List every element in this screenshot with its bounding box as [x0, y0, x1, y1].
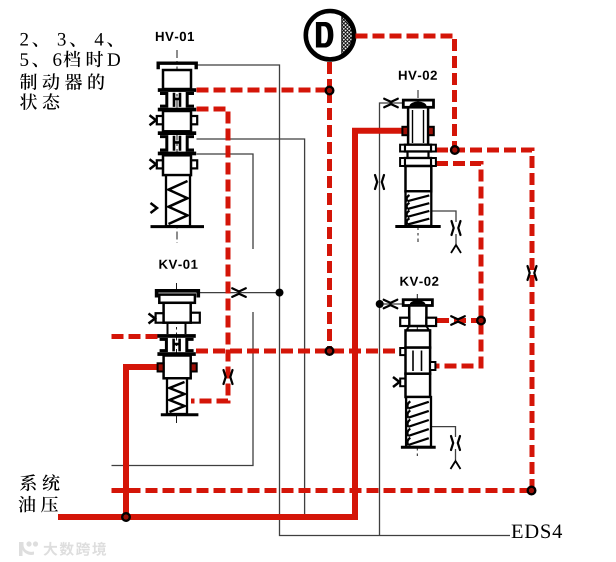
seal block left — [158, 363, 164, 371]
wire: KV-01 left port dashed stub — [112, 334, 160, 339]
wire: HV-02 port to right rail dashed — [436, 150, 532, 491]
seal block right — [191, 363, 197, 371]
node junction pilot/KV line — [326, 347, 334, 355]
wire: KV-01 to KV-02 dashed — [196, 349, 401, 354]
valve HV-02 — [395, 90, 440, 242]
node D drive-position indicator — [306, 11, 354, 59]
node junction KV-02 loop — [477, 317, 485, 325]
wire: KV-02 top port dashed with restrictor — [437, 318, 481, 323]
wire: KV-02 spring drain, orifice, vent — [430, 427, 455, 437]
node junction KV-02 pilot / solenoid line — [376, 300, 384, 308]
wire: D to HV-01 pilot dashed — [327, 62, 332, 91]
wire: system pressure branch to KV-01 solid red — [126, 367, 159, 517]
wire: HV-01 to KV-01 spring side dashed — [191, 109, 228, 401]
orifice on solenoid line — [375, 175, 384, 189]
wire: HV-02 cap pilot with restrictor, solenoid line — [380, 103, 404, 536]
valve KV-02 — [393, 294, 436, 456]
wire: HV-02 lower port to KV-02 loop dashed — [436, 164, 481, 367]
wire: HV-01 port to lower-left stub — [197, 154, 254, 249]
orifice on dashed line x=228 — [224, 370, 233, 384]
valve KV-01 — [149, 283, 200, 424]
node junction bottom rail — [528, 487, 536, 495]
label HV-02 — [399, 71, 407, 80]
label EDS4 solenoid — [512, 525, 523, 538]
wire: HV-01 top cap to EDS4 feedback line — [198, 65, 511, 536]
label KV-02 — [400, 277, 409, 286]
watermark logo — [19, 541, 106, 556]
valve HV-01 — [150, 50, 205, 243]
wire: system pressure main line solid red — [58, 131, 403, 517]
seal block left — [402, 127, 408, 135]
node junction KV-01 pilot / EDS4 line — [276, 289, 284, 297]
orifice on right rail — [528, 266, 537, 280]
wire: HV-02 spring drain, orifice, vent — [431, 211, 456, 222]
label KV-01 — [159, 260, 168, 269]
wire: D to HV-02 top dashed — [356, 36, 455, 150]
title text: gear 2,3,4,5,6 D-brake state — [20, 33, 120, 110]
label system pressure (Chinese) — [19, 474, 60, 512]
node junction pilot D line — [326, 87, 334, 95]
label HV-01 — [156, 32, 164, 41]
seal block right — [428, 127, 434, 135]
wire: HV-01 port drain line — [197, 139, 305, 517]
wire: KV-01 cap pilot line with restrictor — [200, 292, 280, 294]
wire: bottom dashed rail — [112, 488, 532, 493]
node junction system pressure — [122, 513, 130, 521]
node junction HV-02 right rail — [451, 146, 459, 154]
wire: KV-02 cap pilot with restrictor — [380, 303, 403, 305]
wire: pilot dashed down to KV line — [327, 91, 332, 351]
